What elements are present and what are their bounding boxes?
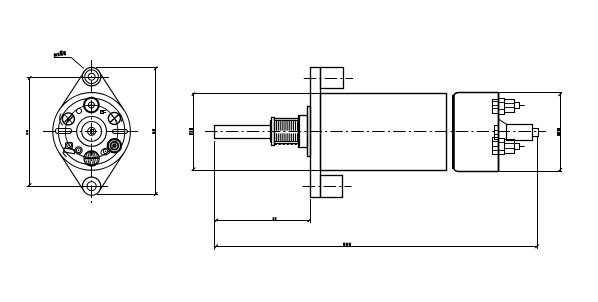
side view centerline	[205, 131, 546, 133]
lower-left pin2 outline	[75, 147, 82, 154]
bottom tab hole centerline	[303, 186, 352, 188]
top terminal stud end line	[519, 105, 525, 107]
side right dimension extension top	[498, 92, 562, 94]
thread root dashed line	[275, 144, 299, 146]
top mounting ear tangent blend right	[99, 72, 124, 111]
left lug	[56, 129, 72, 134]
top mounting ear mid circle	[85, 70, 99, 84]
top terminal insulator	[499, 99, 505, 115]
overall dimension line 166	[215, 246, 538, 248]
upper-left screw head	[62, 113, 74, 125]
top terminal stud	[515, 103, 520, 109]
front flange inner circle	[58, 98, 124, 164]
bottom tab	[321, 176, 343, 198]
thread collar	[272, 118, 275, 146]
front right dimension extension top	[96, 67, 158, 69]
plunger tip	[533, 129, 539, 137]
shaft end extension line	[214, 141, 216, 250]
lower-right dark bolt center	[112, 144, 116, 148]
bottom mounting ear boss circle	[83, 177, 101, 195]
center hub mid circle	[82, 121, 102, 141]
lower-right dark bolt mid	[111, 142, 119, 150]
small pin lower middle	[103, 149, 107, 153]
shaft collar junction bar	[270, 120, 272, 143]
top terminal washer stack	[493, 100, 499, 114]
front right dimension line	[155, 68, 157, 195]
lower-left slab	[64, 148, 76, 154]
side right dimension line	[560, 93, 562, 172]
top bolt head	[84, 98, 99, 113]
left dimension extension top	[27, 77, 109, 79]
end cap right edge	[498, 93, 500, 172]
dimension line 78	[215, 220, 310, 222]
satellite bolt circle	[65, 105, 118, 158]
small wire loop left of top bolt	[77, 109, 82, 114]
shaft	[214, 125, 271, 127]
flange boss	[299, 116, 308, 148]
top mounting ear hole	[88, 73, 95, 80]
top bolt inner circle	[88, 102, 94, 108]
bottom mounting ear tangent blend right	[99, 153, 124, 192]
left dimension line	[29, 77, 31, 186]
thread hatch lines	[276, 120, 278, 131]
solenoid body	[321, 94, 447, 171]
top mounting ear tangent blend left	[59, 72, 84, 111]
bottom terminal stud	[515, 144, 520, 150]
bottom terminal insulator	[499, 139, 505, 155]
center shaft hole circle	[88, 127, 96, 135]
mounting plate	[311, 68, 321, 198]
plunger body	[507, 125, 533, 141]
side right dimension extension bottom	[498, 171, 562, 173]
thread root bottom line	[275, 141, 299, 143]
center hub outer circle	[77, 116, 107, 146]
flange disc	[308, 107, 311, 157]
end cap	[453, 93, 498, 172]
bottom mounting ear tangent blend left	[59, 153, 84, 192]
upper-right screw slot	[110, 115, 118, 122]
bottom mounting ear hole	[87, 182, 96, 191]
front view vertical centerline	[91, 60, 93, 203]
side left dimension extension top	[192, 93, 320, 95]
bottom ball meridians	[90, 151, 93, 166]
center shaft square	[91, 130, 94, 134]
plate extension line	[310, 199, 312, 223]
leader note 2x hole label	[53, 50, 66, 57]
front right dimension extension bottom	[97, 194, 158, 196]
plunger tip line	[538, 131, 545, 133]
lower-left pin2	[76, 148, 80, 152]
top mounting ear boss circle	[82, 68, 100, 86]
left dimension extension bottom	[27, 186, 108, 188]
top bolt cross slot	[91, 100, 93, 110]
terminal square with dot upper right	[101, 111, 104, 114]
bottom terminal nut	[505, 140, 515, 154]
top terminal nut	[505, 100, 515, 113]
right lug	[113, 130, 128, 134]
thread root top line	[275, 120, 299, 122]
plunger chamfer	[498, 119, 507, 125]
side left dimension extension bottom	[192, 170, 320, 172]
lower-right dark bolt outer	[108, 139, 121, 152]
bottom terminal stud end line	[519, 146, 525, 148]
lower-left hatch ticks	[60, 154, 64, 159]
end cap left edge bold	[452, 95, 455, 169]
upper-right screw boss arc	[120, 114, 122, 122]
top tab	[321, 68, 344, 89]
lower-left pin	[67, 143, 72, 148]
front view horizontal centerline	[43, 131, 138, 133]
upper-left screw boss arc	[60, 114, 63, 126]
bottom ball stud	[84, 151, 99, 166]
side left dimension line	[193, 93, 195, 170]
plunger washer stack	[495, 126, 499, 140]
upper-left screw slot	[65, 114, 73, 122]
bottom terminal washer stack	[493, 138, 499, 155]
front flange outer circle	[53, 93, 131, 171]
top tab hole centerline	[304, 78, 353, 80]
upper-right screw head	[108, 112, 120, 124]
plunger tip extension line	[537, 137, 539, 249]
lower-left pin housing	[66, 143, 73, 149]
threaded bushing body	[275, 119, 299, 144]
small pin lower middle outline	[100, 147, 111, 156]
